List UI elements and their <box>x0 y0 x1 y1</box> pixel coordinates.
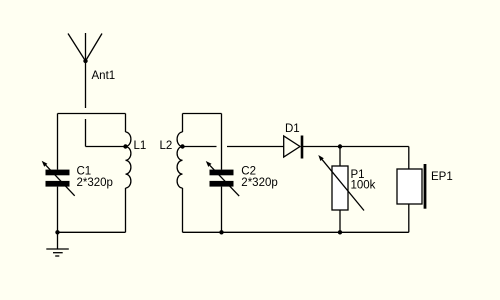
wire bottom rail <box>183 231 409 233</box>
svg-text:2*320p: 2*320p <box>241 177 277 189</box>
wire diode to P1 <box>302 146 340 148</box>
capacitor C1 <box>42 161 75 196</box>
wire tank2 left upper <box>182 114 184 133</box>
wire tank1 top <box>58 113 126 115</box>
wire tank2 top <box>183 113 222 115</box>
node P1 bottom junction <box>338 230 342 234</box>
node tank1 ground junction <box>55 230 59 234</box>
wire P1 to EP1 top <box>340 146 409 148</box>
svg-text:EP1: EP1 <box>431 171 453 183</box>
wire L2 tap to crossing <box>183 146 217 148</box>
svg-text:2*320p: 2*320p <box>77 177 113 189</box>
svg-text:D1: D1 <box>285 123 300 135</box>
wire tank1 bottom <box>58 231 126 233</box>
wire crossing to diode <box>227 146 284 148</box>
antenna Ant1 <box>68 33 102 108</box>
wire tank1 left lower <box>57 187 59 233</box>
wire EP1 bottom lead <box>408 204 410 232</box>
wire antenna stem to L1 tap <box>86 119 126 147</box>
wire tank2 C2 branch lower <box>221 187 223 233</box>
ground <box>46 232 69 256</box>
label C2 value <box>241 166 277 189</box>
label P1 value <box>351 169 376 192</box>
svg-text:C1: C1 <box>77 165 92 177</box>
wire tank1 right upper <box>125 114 127 133</box>
diode D1 <box>284 136 302 159</box>
node P1 top junction <box>338 144 342 148</box>
inductor L1 <box>123 132 131 188</box>
svg-text:L1: L1 <box>134 140 147 152</box>
wire tank1 left upper <box>57 114 59 170</box>
wire tank1 right lower <box>125 188 127 232</box>
earphone EP1 <box>397 164 425 209</box>
potentiometer P1 <box>318 155 364 211</box>
inductor L2 <box>177 132 185 188</box>
svg-text:100k: 100k <box>351 180 376 192</box>
capacitor C2 <box>206 161 239 196</box>
svg-text:Ant1: Ant1 <box>92 70 116 82</box>
wire tank2 left lower <box>182 188 184 232</box>
wire P1 top lead <box>339 147 341 167</box>
node C2 bottom junction <box>219 230 223 234</box>
wire tank2 C2 branch upper <box>221 114 223 170</box>
wire EP1 top lead <box>408 147 410 170</box>
svg-text:C2: C2 <box>241 166 256 178</box>
wire P1 bottom lead <box>339 210 341 232</box>
svg-text:L2: L2 <box>160 140 173 152</box>
label C1 value <box>77 165 113 189</box>
